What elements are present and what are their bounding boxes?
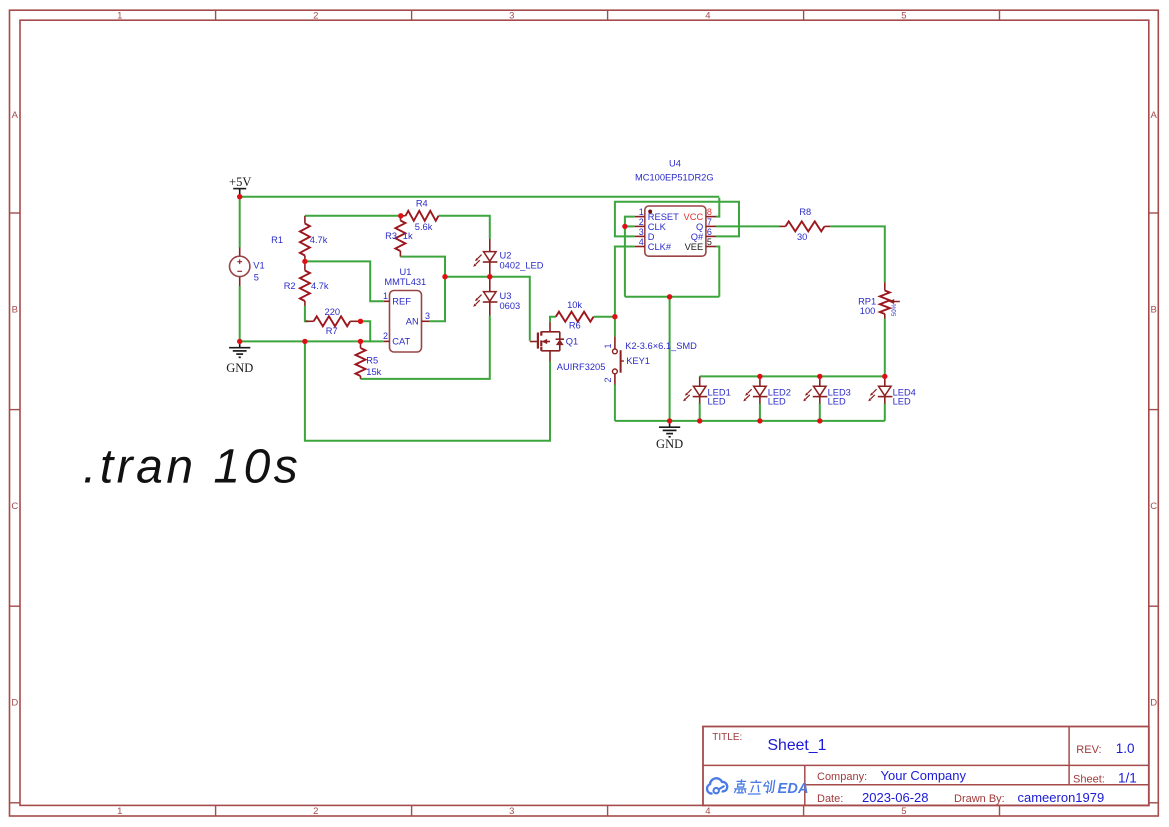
svg-text:4.7k: 4.7k bbox=[310, 235, 328, 245]
node U2/U3 bbox=[487, 274, 492, 279]
U4 pin 1 RESET bbox=[635, 216, 645, 218]
LED U2 symbol bbox=[484, 252, 497, 262]
svg-text:1: 1 bbox=[383, 291, 388, 301]
svg-text:R3: R3 bbox=[385, 231, 397, 241]
node R1/R2/REF bbox=[302, 259, 307, 264]
svg-text:MMTL431: MMTL431 bbox=[384, 277, 426, 287]
svg-text:100: 100 bbox=[860, 306, 876, 316]
svg-text:R5: R5 bbox=[366, 356, 378, 366]
svg-text:6: 6 bbox=[707, 227, 712, 237]
wire U4 pin4 CLK# to KEY1/R6 vertical bbox=[615, 247, 635, 337]
svg-text:GND: GND bbox=[226, 361, 253, 375]
title block frame bbox=[703, 727, 1149, 806]
svg-text:LED: LED bbox=[768, 397, 786, 407]
wire LED drop x=759.9 bbox=[759, 403, 761, 421]
svg-text:0603: 0603 bbox=[500, 301, 521, 311]
svg-text:EDA: EDA bbox=[778, 781, 809, 797]
svg-text:V1: V1 bbox=[253, 261, 264, 271]
node LED3 top bbox=[817, 374, 822, 379]
svg-text:cameeron1979: cameeron1979 bbox=[1018, 790, 1105, 805]
wire RESET/VEE bottom horizontal bbox=[625, 296, 719, 298]
node LED4 top bbox=[882, 374, 887, 379]
svg-text:Date:: Date: bbox=[817, 793, 843, 805]
U4 pin 6 Q# bbox=[706, 235, 716, 237]
U1 pin 3 AN bbox=[422, 320, 430, 322]
transistor Q1 AUIRF3205 bbox=[530, 341, 537, 343]
wire VCC drop to U4 pin8 bbox=[716, 198, 719, 217]
wire LED drop x=819.8 bbox=[819, 403, 821, 421]
svg-text:CAT: CAT bbox=[392, 337, 410, 347]
svg-text:A: A bbox=[12, 110, 19, 121]
svg-text:4: 4 bbox=[705, 10, 710, 21]
resistor R4 body bbox=[406, 211, 439, 221]
resistor R3 1k bbox=[399, 216, 401, 221]
resistor R8 body bbox=[786, 221, 825, 231]
U4 pin 7 Q bbox=[706, 225, 716, 227]
svg-text:.tran 10s: .tran 10s bbox=[83, 441, 301, 494]
svg-text:1.0: 1.0 bbox=[1116, 741, 1135, 756]
resistor R6 body bbox=[556, 312, 594, 322]
svg-text:50%: 50% bbox=[891, 303, 898, 316]
svg-text:RESET: RESET bbox=[648, 212, 679, 222]
wire LED drop x=699.7 bbox=[699, 403, 701, 421]
resistor R7 body bbox=[314, 316, 351, 326]
wire R4 right to U2 anode bbox=[439, 216, 490, 239]
voltage source V1 bbox=[239, 248, 241, 257]
svg-text:C: C bbox=[1150, 501, 1157, 512]
svg-text:VEE: VEE bbox=[685, 242, 704, 252]
node LED2 top bbox=[757, 374, 762, 379]
wire R6 left to Q1 drain bbox=[550, 317, 556, 322]
svg-text:Q#: Q# bbox=[691, 232, 704, 242]
svg-text:220: 220 bbox=[325, 307, 341, 317]
svg-text:R1: R1 bbox=[271, 235, 283, 245]
LED LED1 bbox=[699, 376, 701, 386]
LED LED2 symbol bbox=[754, 386, 767, 396]
svg-text:5: 5 bbox=[707, 237, 712, 247]
U4 pin 5 VEE bbox=[706, 246, 716, 248]
svg-text:REF: REF bbox=[392, 297, 411, 307]
svg-text:D: D bbox=[1150, 698, 1157, 709]
node R7/CAT bbox=[358, 319, 363, 324]
resistor R2 4.7k bbox=[304, 261, 306, 270]
svg-text:10k: 10k bbox=[567, 300, 582, 310]
node R6/KEY1 bbox=[612, 314, 617, 319]
wire GND drop from U4 net bbox=[669, 297, 671, 421]
JLC EDA logo CJK glyphs bbox=[734, 779, 748, 793]
svg-text:A: A bbox=[1151, 110, 1158, 121]
node LED2 bottom bbox=[757, 418, 762, 423]
svg-text:U2: U2 bbox=[500, 251, 512, 261]
node +5V rail bbox=[237, 194, 242, 199]
svg-text:LED: LED bbox=[708, 397, 726, 407]
node R3/AN rail bbox=[442, 274, 447, 279]
svg-text:2: 2 bbox=[639, 217, 644, 227]
ground GND left bbox=[239, 341, 241, 347]
wire D/Q# feedback loop bbox=[615, 202, 739, 237]
wire U4 pin1 RESET to left vertical bbox=[625, 217, 635, 297]
svg-text:Drawn By:: Drawn By: bbox=[954, 793, 1005, 805]
op-amp U1 MMTL431 body bbox=[390, 291, 422, 353]
svg-text:LED: LED bbox=[828, 397, 846, 407]
wire R6 right to junction bbox=[594, 316, 615, 318]
svg-text:+5V: +5V bbox=[229, 175, 251, 189]
wire LED drop x=884.8 bbox=[884, 403, 886, 421]
svg-text:2: 2 bbox=[603, 377, 613, 382]
svg-text:1: 1 bbox=[117, 10, 122, 21]
svg-text:4.7k: 4.7k bbox=[311, 281, 329, 291]
svg-text:R4: R4 bbox=[416, 198, 428, 208]
wire U4 pin2 CLK stub bbox=[625, 225, 635, 227]
node V1/GND rail bbox=[237, 339, 242, 344]
wire U3 cathode down and left to R5 bbox=[361, 316, 490, 379]
svg-text:KEY1: KEY1 bbox=[626, 356, 650, 366]
svg-text:5.6k: 5.6k bbox=[415, 222, 433, 232]
node rail/R5 bbox=[358, 339, 363, 344]
svg-text:2: 2 bbox=[383, 331, 388, 341]
svg-text:30: 30 bbox=[797, 232, 807, 242]
resistor R4 5.6k bbox=[401, 215, 406, 217]
wire R7 right to CAT bbox=[361, 321, 384, 341]
svg-text:U4: U4 bbox=[669, 158, 681, 168]
svg-text:AUIRF3205: AUIRF3205 bbox=[557, 362, 606, 372]
wire R2 bottom to R7 bbox=[305, 306, 308, 321]
ruler column ticks bottom bbox=[215, 805, 217, 816]
svg-text:3: 3 bbox=[425, 311, 430, 321]
U1 pin 1 REF bbox=[384, 300, 390, 302]
svg-text:Sheet_1: Sheet_1 bbox=[768, 737, 827, 754]
JLC EDA logo cloud bbox=[707, 778, 727, 793]
svg-text:1/1: 1/1 bbox=[1118, 771, 1137, 786]
svg-text:U3: U3 bbox=[500, 291, 512, 301]
svg-text:AN: AN bbox=[406, 317, 419, 327]
svg-text:8: 8 bbox=[707, 207, 712, 217]
svg-text:Sheet:: Sheet: bbox=[1073, 774, 1105, 786]
svg-text:1k: 1k bbox=[403, 231, 413, 241]
node GND bottom rail bbox=[667, 418, 672, 423]
svg-text:15k: 15k bbox=[366, 367, 381, 377]
svg-text:Company:: Company: bbox=[817, 771, 867, 783]
svg-text:4: 4 bbox=[705, 806, 710, 817]
svg-text:REV:: REV: bbox=[1076, 744, 1101, 756]
svg-text:3: 3 bbox=[509, 806, 514, 817]
svg-text:2023-06-28: 2023-06-28 bbox=[862, 790, 929, 805]
svg-text:4: 4 bbox=[639, 237, 644, 247]
node R4/R3/R1 bbox=[398, 213, 403, 218]
potentiometer RP1 100 bbox=[884, 283, 886, 291]
svg-text:2: 2 bbox=[313, 806, 318, 817]
node CLK tee bbox=[622, 224, 627, 229]
svg-text:CLK#: CLK# bbox=[648, 242, 672, 252]
svg-text:B: B bbox=[12, 305, 18, 316]
LED LED2 bbox=[759, 376, 761, 386]
LED LED1 symbol bbox=[693, 386, 706, 396]
ruler row ticks left bbox=[10, 212, 21, 214]
svg-text:MC100EP51DR2G: MC100EP51DR2G bbox=[635, 173, 714, 183]
RP1 wiper arrow bbox=[893, 301, 900, 303]
svg-text:1: 1 bbox=[117, 806, 122, 817]
resistor R5 15k bbox=[360, 341, 362, 348]
svg-text:0402_LED: 0402_LED bbox=[500, 260, 544, 270]
LED LED3 bbox=[819, 376, 821, 386]
wire bottom loop Q1 source return bbox=[305, 341, 550, 440]
svg-text:R8: R8 bbox=[799, 207, 811, 217]
svg-text:5: 5 bbox=[901, 10, 906, 21]
LED U2 0402_LED bbox=[489, 239, 491, 252]
ground GND bottom bbox=[669, 421, 671, 427]
wire Q output to R8 bbox=[716, 225, 779, 227]
node LED1 bottom bbox=[697, 418, 702, 423]
svg-text:1: 1 bbox=[603, 343, 613, 348]
ruler column ticks top bbox=[215, 10, 217, 20]
svg-text:5: 5 bbox=[901, 806, 906, 817]
svg-text:D: D bbox=[11, 698, 18, 709]
wire LED bottom rail bbox=[615, 420, 885, 422]
wire R8 right to RP1 bbox=[830, 226, 885, 282]
LED LED3 symbol bbox=[814, 386, 827, 396]
U4 pin 3 D bbox=[635, 235, 645, 237]
wire R1 top rail to R4 bbox=[305, 215, 401, 217]
svg-text:3: 3 bbox=[509, 10, 514, 21]
resistor R8 30 bbox=[780, 225, 786, 227]
LED U3 0603 bbox=[489, 277, 491, 292]
Q1 body diode bbox=[559, 332, 561, 339]
svg-text:Q: Q bbox=[696, 222, 703, 232]
resistor R2 body bbox=[300, 271, 310, 302]
svg-text:GND: GND bbox=[656, 437, 683, 451]
LED LED4 symbol bbox=[879, 386, 892, 396]
svg-text:2: 2 bbox=[313, 10, 318, 21]
wire R3 bottom over to LED rail bbox=[400, 257, 445, 322]
ruler row ticks right bbox=[1149, 212, 1159, 214]
wire anode rail to Q1 gate bbox=[445, 277, 530, 341]
wire VEE up right side bbox=[716, 247, 719, 297]
resistor R5 body bbox=[356, 348, 366, 376]
resistor R3 body bbox=[395, 221, 405, 251]
node LED3 bottom bbox=[817, 418, 822, 423]
resistor R1 4.7k bbox=[304, 216, 306, 224]
flip-flop U4 MC100EP51DR2G body bbox=[645, 206, 706, 256]
svg-text:7: 7 bbox=[707, 217, 712, 227]
U4 pin 4 CLK# bbox=[635, 246, 645, 248]
resistor R1 body bbox=[300, 224, 310, 256]
LED LED4 bbox=[884, 376, 886, 386]
svg-text:1: 1 bbox=[639, 207, 644, 217]
svg-text:5: 5 bbox=[254, 273, 259, 283]
LED U3 symbol bbox=[484, 292, 497, 302]
svg-text:U1: U1 bbox=[400, 267, 412, 277]
svg-text:K2-3.6×6.1_SMD: K2-3.6×6.1_SMD bbox=[625, 341, 697, 351]
wire REF feed bbox=[305, 261, 384, 301]
svg-text:R2: R2 bbox=[284, 281, 296, 291]
svg-text:R6: R6 bbox=[569, 321, 581, 331]
svg-text:CLK: CLK bbox=[648, 222, 667, 232]
svg-text:Q1: Q1 bbox=[566, 337, 578, 347]
U4 pin 8 VCC bbox=[706, 216, 716, 218]
wire RP1 bottom to LED rail bbox=[884, 319, 886, 377]
svg-text:D: D bbox=[648, 232, 655, 242]
pushbutton KEY1 K2-3.6x6.1_SMD bbox=[614, 337, 616, 349]
U1 pin 2 CAT bbox=[384, 340, 390, 342]
wire V1 minus lead bbox=[239, 286, 241, 341]
svg-text:R7: R7 bbox=[326, 326, 338, 336]
svg-text:C: C bbox=[11, 501, 18, 512]
wire GND rail left bbox=[240, 340, 371, 342]
wire V1 plus lead bbox=[239, 197, 241, 248]
svg-text:B: B bbox=[1151, 305, 1157, 316]
svg-text:3: 3 bbox=[639, 227, 644, 237]
node GND rail drop bbox=[302, 339, 307, 344]
wire KEY1 bottom to rail bbox=[614, 385, 616, 421]
svg-text:VCC: VCC bbox=[684, 212, 704, 222]
wire +5V top rail bbox=[240, 196, 720, 198]
potentiometer RP1 body bbox=[880, 291, 890, 314]
node VEE wire bbox=[667, 294, 672, 299]
svg-text:TITLE:: TITLE: bbox=[712, 732, 742, 743]
svg-text:Your Company: Your Company bbox=[881, 768, 967, 783]
wire LED top rail bbox=[700, 375, 885, 377]
U4 pin 2 CLK bbox=[635, 225, 645, 227]
resistor R7 220 bbox=[305, 320, 313, 322]
svg-text:LED: LED bbox=[893, 397, 911, 407]
